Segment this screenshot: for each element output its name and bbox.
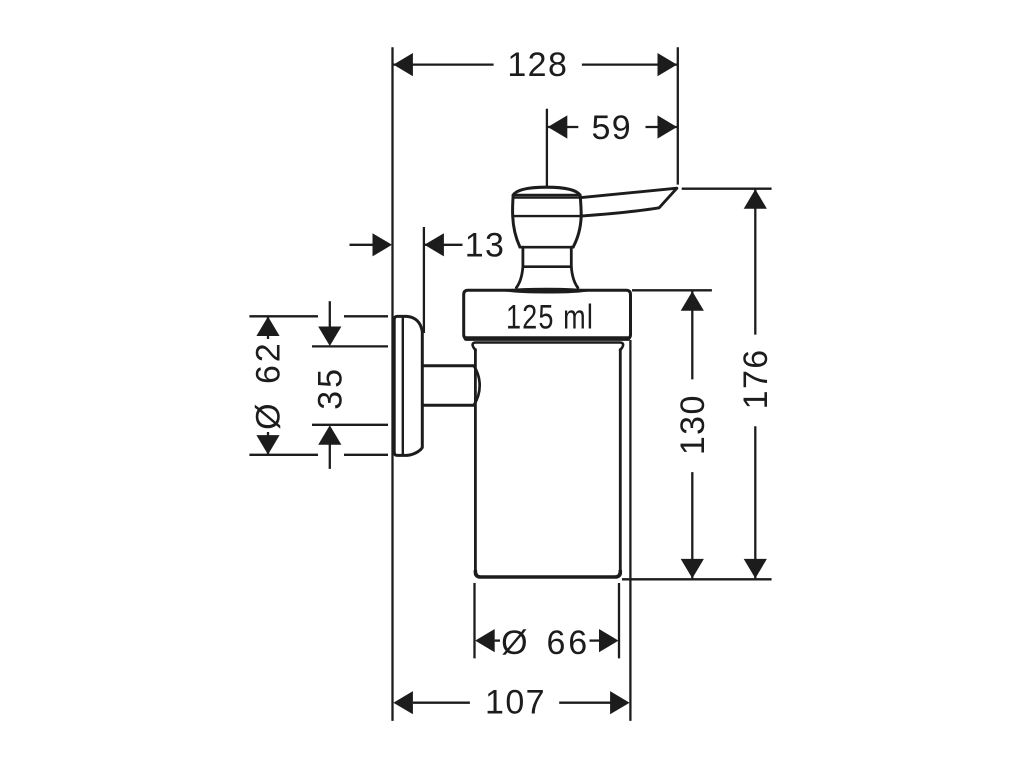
svg-text:125 ml: 125 ml (506, 298, 594, 336)
wall plate inner line (402, 317, 404, 454)
spout lever (581, 188, 677, 216)
arrow 66 left (475, 629, 495, 652)
collar bottom thick edge (466, 336, 628, 341)
arrow 35 down (318, 327, 341, 347)
dim 128 line (393, 63, 494, 65)
dim 13 leader right (424, 244, 463, 246)
pump neck right side (570, 247, 573, 267)
svg-text:13: 13 (465, 227, 506, 265)
arrow 176 up (744, 189, 767, 209)
arrow 59 right (658, 115, 678, 138)
dim 130 top extent line (632, 289, 712, 291)
svg-text:62: 62 (250, 340, 288, 384)
pump dome base line (513, 194, 580, 196)
right extension line for 128/59 (677, 47, 679, 184)
arrow 107 right (610, 691, 630, 714)
dim 107 line (413, 702, 470, 704)
dim 66 left extension line (473, 583, 475, 658)
bottle bottom extent line (622, 578, 772, 580)
arrow 13 right (424, 233, 444, 256)
wall extension line (391, 47, 393, 721)
bottle lip (473, 343, 624, 351)
dim 66 right extension line (618, 583, 620, 658)
dim 107 right extension line (629, 340, 631, 721)
svg-text:66: 66 (546, 624, 590, 662)
arrow 107 left (393, 691, 413, 714)
dim 13 leader left (350, 244, 375, 246)
dim 35 top extent line (312, 345, 388, 347)
holder arm end bulge (474, 366, 480, 405)
pump head right side (573, 195, 581, 247)
svg-text:107: 107 (485, 683, 546, 721)
dim 130 vertical line (691, 291, 693, 379)
dimension labels (250, 46, 775, 721)
arrow 128 left (393, 53, 413, 76)
pump neck top line (520, 246, 574, 249)
pump flare base bar (505, 288, 589, 293)
arrow 66 right (599, 629, 619, 652)
dim 59 left extension line (546, 109, 548, 188)
arrow 59 left (548, 115, 568, 138)
pump neck bottom line (523, 265, 571, 268)
svg-text:Ø: Ø (250, 403, 288, 429)
dim 35 vertical line bottom (329, 443, 331, 469)
dim O62 top extent line (249, 315, 318, 317)
arrow 176 down (744, 559, 767, 579)
holder arm top edge (424, 364, 475, 367)
svg-text:35: 35 (312, 366, 350, 410)
dim 35 vertical line top (329, 301, 331, 329)
bottle bottom (475, 571, 620, 577)
dim 59 line (547, 126, 578, 128)
pump flare right (571, 267, 578, 288)
svg-text:59: 59 (591, 109, 632, 147)
wall plate outline (394, 316, 422, 455)
arrow 128 right (658, 53, 678, 76)
bottle left wall (474, 350, 477, 575)
pump head top line (513, 196, 580, 198)
svg-text:130: 130 (674, 394, 712, 455)
arrow O62 up (256, 317, 279, 337)
pump flare left (516, 267, 523, 288)
arrow 35 up (318, 425, 341, 445)
pump head left side (513, 195, 520, 247)
svg-text:128: 128 (507, 46, 568, 84)
dim 176 vertical line (754, 189, 756, 334)
dim O62 bottom extent line (249, 454, 318, 456)
pump head mid line (513, 215, 582, 217)
arrow 13 left (373, 233, 393, 256)
dim 66 line stubs (495, 639, 500, 641)
spout tip extent line (682, 188, 772, 190)
svg-text:Ø: Ø (501, 624, 527, 662)
arrow 130 up (681, 291, 704, 311)
svg-text:176: 176 (737, 348, 775, 409)
bottle right wall (619, 350, 622, 575)
dim 13 right extension line (423, 227, 425, 333)
dim O62 vertical line (267, 317, 269, 340)
holder arm bottom edge (424, 404, 475, 407)
arrowheads (256, 53, 766, 714)
collar (125 ml block) (464, 290, 631, 339)
pump dome cap (513, 187, 580, 195)
arrow 130 down (681, 559, 704, 579)
dim 35 bottom extent line (312, 424, 388, 426)
pump neck left side (522, 247, 525, 267)
arrow O62 down (256, 435, 279, 455)
